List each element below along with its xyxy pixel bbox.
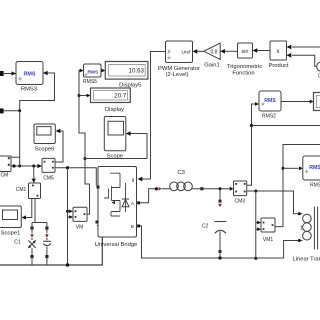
inductor C3 bbox=[162, 170, 199, 191]
wire CM5 lower output to bridge + bbox=[55, 168, 96, 186]
wire CM3 lower output to transformer primary top bbox=[247, 191, 303, 214]
display Display5 value 10.63 bbox=[105, 62, 148, 89]
svg-text:RMS1: RMS1 bbox=[310, 183, 320, 189]
node junction at (33.75,166) bbox=[32, 165, 35, 168]
connector at left edge to RMS3 bbox=[0, 71, 4, 76]
svg-text:0.8: 0.8 bbox=[211, 49, 218, 55]
port - square bbox=[96, 221, 99, 224]
wire vertical from CM5 junction down to ground bus bbox=[67, 168, 69, 265]
node J1 bbox=[84, 157, 87, 160]
wire bridge B to bottom line and transformer primary bottom bbox=[140, 226, 302, 258]
block RMS5 bbox=[83, 64, 101, 85]
svg-text:Trigonometric: Trigonometric bbox=[227, 64, 262, 70]
node junction at (251.5,125.5) bbox=[250, 124, 253, 127]
wire sin to Gain1 bbox=[225, 50, 238, 52]
svg-text:(2-Level): (2-Level) bbox=[166, 72, 189, 78]
block Scope6 bbox=[34, 124, 55, 152]
node junction at (79,95.5) bbox=[78, 94, 81, 97]
svg-text:RMS2: RMS2 bbox=[262, 113, 276, 119]
gain Gain1 bbox=[204, 43, 220, 68]
svg-text:Uref: Uref bbox=[181, 50, 191, 56]
svg-text:RMS5: RMS5 bbox=[83, 79, 97, 85]
block RMS1 (clipped at right edge) bbox=[303, 156, 320, 189]
wire junction to Display bbox=[79, 95, 87, 97]
wire CM1 feed from junction bbox=[33, 166, 35, 179]
node junction at (67.5,167.7) bbox=[66, 166, 69, 169]
svg-text:VM: VM bbox=[76, 225, 84, 231]
svg-text:20.7: 20.7 bbox=[114, 92, 127, 99]
wire PWM P output down to bridge gate bbox=[142, 52, 166, 180]
svg-text:Scope1: Scope1 bbox=[1, 230, 21, 236]
block Scope bbox=[104, 117, 126, 160]
wire VM output up to measurement node J1 bbox=[85, 159, 90, 215]
block VM1 bbox=[261, 218, 275, 243]
svg-text:Display: Display bbox=[105, 107, 124, 113]
svg-text:VM1: VM1 bbox=[263, 237, 274, 243]
svg-text:Function: Function bbox=[232, 70, 254, 76]
capacitor C2 branch bbox=[202, 189, 226, 258]
wire J1 up to RMS5 and Display bbox=[79, 71, 85, 159]
wire Gain1 to PWM Uref bbox=[198, 50, 204, 52]
svg-text:Universal Bridge: Universal Bridge bbox=[95, 242, 138, 248]
svg-text:x: x bbox=[277, 49, 280, 55]
wire CM3 junction down to VM1 and bottom line bbox=[255, 191, 257, 258]
wire CM to CM5 bbox=[11, 165, 38, 167]
display clipped at right edge bbox=[314, 93, 320, 111]
transformer Linear Transformer (clipped at right edge) bbox=[293, 207, 320, 263]
svg-text:C2: C2 bbox=[202, 223, 209, 229]
internal mosfet leg bbox=[104, 173, 120, 216]
svg-text:C3: C3 bbox=[177, 170, 184, 176]
wire Product to sin bbox=[258, 50, 271, 52]
svg-text:C1: C1 bbox=[14, 240, 21, 246]
wire down to CM output line bbox=[19, 111, 21, 166]
svg-text:g: g bbox=[132, 177, 135, 182]
svg-text:B: B bbox=[131, 224, 134, 229]
block Universal Bridge bbox=[95, 167, 138, 249]
wire J1 to Scope input bbox=[85, 134, 147, 159]
port B square bbox=[137, 225, 140, 228]
svg-text:RMS: RMS bbox=[309, 165, 320, 171]
block CM5 bbox=[42, 158, 55, 181]
wire C3 to CM3 bbox=[199, 188, 230, 190]
svg-text:RMS: RMS bbox=[264, 98, 276, 104]
svg-text:CM1: CM1 bbox=[16, 187, 27, 193]
wire stub into VM + bbox=[68, 210, 70, 212]
svg-text:RMS: RMS bbox=[87, 69, 99, 75]
wire into RMS3 right port from current line bbox=[43, 71, 48, 75]
port A square bbox=[137, 201, 140, 204]
node bus junction bbox=[66, 263, 69, 266]
wire bridge A to inductor C3 bbox=[140, 189, 155, 203]
block VM (voltage measurement) bbox=[73, 207, 87, 230]
wire CM top port loop to junction bbox=[11, 156, 20, 158]
wire CM3 top output up to RMS2 bbox=[247, 104, 255, 185]
wire RMS2 to display at right edge bbox=[281, 101, 310, 103]
wire stub into VM - bbox=[68, 216, 70, 218]
block Scope1 bbox=[0, 206, 21, 236]
block CM (current measurement, clipped at left edge) bbox=[0, 156, 11, 179]
wire VM1 output up to RMS1 and right edge bbox=[275, 145, 320, 227]
internal diode bbox=[122, 183, 129, 212]
svg-text:RMS: RMS bbox=[24, 71, 36, 77]
node junction at (67.5,211.3) bbox=[66, 210, 69, 213]
node junction at (14,166) bbox=[12, 164, 15, 167]
svg-text:P: P bbox=[168, 50, 171, 56]
svg-text:Scope6: Scope6 bbox=[35, 146, 55, 152]
capacitor branch of C1 bbox=[43, 227, 51, 266]
block CM1 bbox=[16, 183, 41, 199]
port + square bbox=[97, 186, 100, 189]
block RMS3 bbox=[16, 62, 43, 93]
svg-text:Linear Transformer: Linear Transformer bbox=[293, 256, 320, 262]
wire source C to Product input 2 bbox=[292, 55, 317, 66]
svg-text:RMS3: RMS3 bbox=[21, 87, 37, 93]
svg-text:Gain1: Gain1 bbox=[204, 62, 219, 68]
svg-text:CM: CM bbox=[1, 173, 9, 179]
wire CM1 bottom to Scope1 bbox=[25, 199, 32, 218]
svg-text:sin: sin bbox=[242, 49, 249, 55]
svg-text:Scope: Scope bbox=[107, 153, 123, 159]
surge arrester branch of C1 bbox=[28, 227, 35, 266]
block Product bbox=[269, 41, 289, 69]
svg-text:Product: Product bbox=[269, 63, 289, 69]
svg-text:CM3: CM3 bbox=[235, 199, 246, 205]
block RMS2 bbox=[259, 91, 281, 119]
wire CM5 top output to Scope6 bbox=[55, 131, 63, 162]
wire RMS5 to Display5 bbox=[101, 70, 102, 72]
connector at left edge lower bbox=[0, 108, 4, 113]
source block C (clipped circle at right edge) bbox=[317, 62, 320, 71]
wire junction to right edge bbox=[252, 125, 320, 127]
svg-text:1: 1 bbox=[300, 225, 303, 231]
wire right edge into Product input 1 bbox=[292, 46, 320, 48]
display Display value 20.7 bbox=[91, 88, 131, 113]
block Trigonometric Function (sin) bbox=[227, 43, 262, 76]
wire CM1 bottom to C1 branches bbox=[32, 199, 47, 227]
block PWM Generator (2-Level) bbox=[158, 41, 200, 78]
node junction at (19.7,110.8) bbox=[18, 109, 21, 112]
svg-text:10.63: 10.63 bbox=[129, 68, 145, 75]
svg-text:CM5: CM5 bbox=[43, 175, 54, 181]
wire ground bus bbox=[0, 226, 102, 266]
block CM3 bbox=[234, 181, 247, 205]
